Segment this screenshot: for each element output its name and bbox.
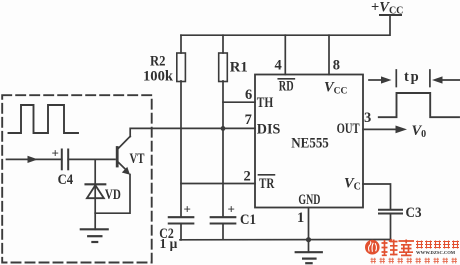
wire input xyxy=(7,158,62,160)
output pulse waveform xyxy=(379,93,459,117)
svg-text:OUT: OUT xyxy=(337,121,360,137)
overline RD xyxy=(278,78,294,80)
IC U1 NE555 body xyxy=(255,75,363,208)
svg-text:C4: C4 xyxy=(58,172,74,188)
wire collector up xyxy=(130,128,255,136)
wire pin4 xyxy=(284,35,286,74)
svg-text:p: p xyxy=(411,69,419,85)
svg-text:GND: GND xyxy=(298,192,320,208)
dashed input box xyxy=(2,95,152,262)
svg-text:6: 6 xyxy=(245,87,252,103)
svg-text:R1: R1 xyxy=(230,60,248,76)
svg-text:+: + xyxy=(52,146,59,161)
wire diode to ground xyxy=(94,184,96,229)
svg-text:C1: C1 xyxy=(240,212,256,228)
diode VD xyxy=(86,183,106,185)
input arrowhead xyxy=(28,156,38,163)
node DIS junction xyxy=(221,126,226,131)
svg-text:7: 7 xyxy=(245,112,252,128)
svg-text:1 μ: 1 μ xyxy=(160,236,178,251)
input square wave xyxy=(9,105,79,133)
watermark text xyxy=(371,239,460,263)
svg-text:WWW.DZSC.COM: WWW.DZSC.COM xyxy=(416,250,456,255)
resistor R1 xyxy=(222,35,224,53)
svg-text:+: + xyxy=(228,202,235,217)
wire emitter down xyxy=(95,175,130,214)
wire diode branch xyxy=(94,159,96,184)
svg-text:R2: R2 xyxy=(150,54,166,70)
svg-text:100k: 100k xyxy=(143,69,174,85)
svg-text:8: 8 xyxy=(333,58,340,74)
ground (main) xyxy=(296,251,322,253)
svg-text:DIS: DIS xyxy=(257,122,281,138)
wire pin1 GND xyxy=(308,208,310,253)
transistor VT xyxy=(116,148,119,167)
svg-text:4: 4 xyxy=(275,58,282,74)
svg-text:TR: TR xyxy=(259,176,274,192)
capacitor C2 xyxy=(169,216,194,218)
wire TR xyxy=(181,183,255,185)
Vcc supply bar xyxy=(380,14,401,16)
svg-text:RD: RD xyxy=(279,79,294,95)
capacitor C1 xyxy=(211,216,236,218)
wire bottom rail xyxy=(180,239,391,241)
capacitor C3 xyxy=(379,209,402,211)
tp timing marks xyxy=(369,79,383,81)
wire VC to C3 xyxy=(363,184,391,210)
overline TR xyxy=(259,174,275,176)
watermark logo circle xyxy=(365,240,380,255)
svg-text:2: 2 xyxy=(244,169,251,185)
svg-text:TH: TH xyxy=(257,95,274,111)
node pin1/rail junction xyxy=(306,237,311,242)
svg-text:VD: VD xyxy=(105,187,121,203)
resistor R2 xyxy=(180,35,182,53)
svg-text:3: 3 xyxy=(364,110,371,126)
svg-text:NE555: NE555 xyxy=(291,135,329,151)
svg-text:1: 1 xyxy=(297,210,304,226)
capacitor C4 xyxy=(61,150,63,170)
wire TH xyxy=(223,101,255,103)
wire pin8 xyxy=(328,35,330,74)
svg-text:VT: VT xyxy=(130,151,145,167)
wire OUT pin3 xyxy=(363,128,398,130)
svg-text:+: + xyxy=(184,202,191,217)
ground (diode) xyxy=(81,228,108,230)
svg-text:t: t xyxy=(404,69,409,85)
wire top rail xyxy=(181,15,390,35)
wire C4 to base xyxy=(68,158,115,160)
svg-text:C3: C3 xyxy=(406,205,422,221)
